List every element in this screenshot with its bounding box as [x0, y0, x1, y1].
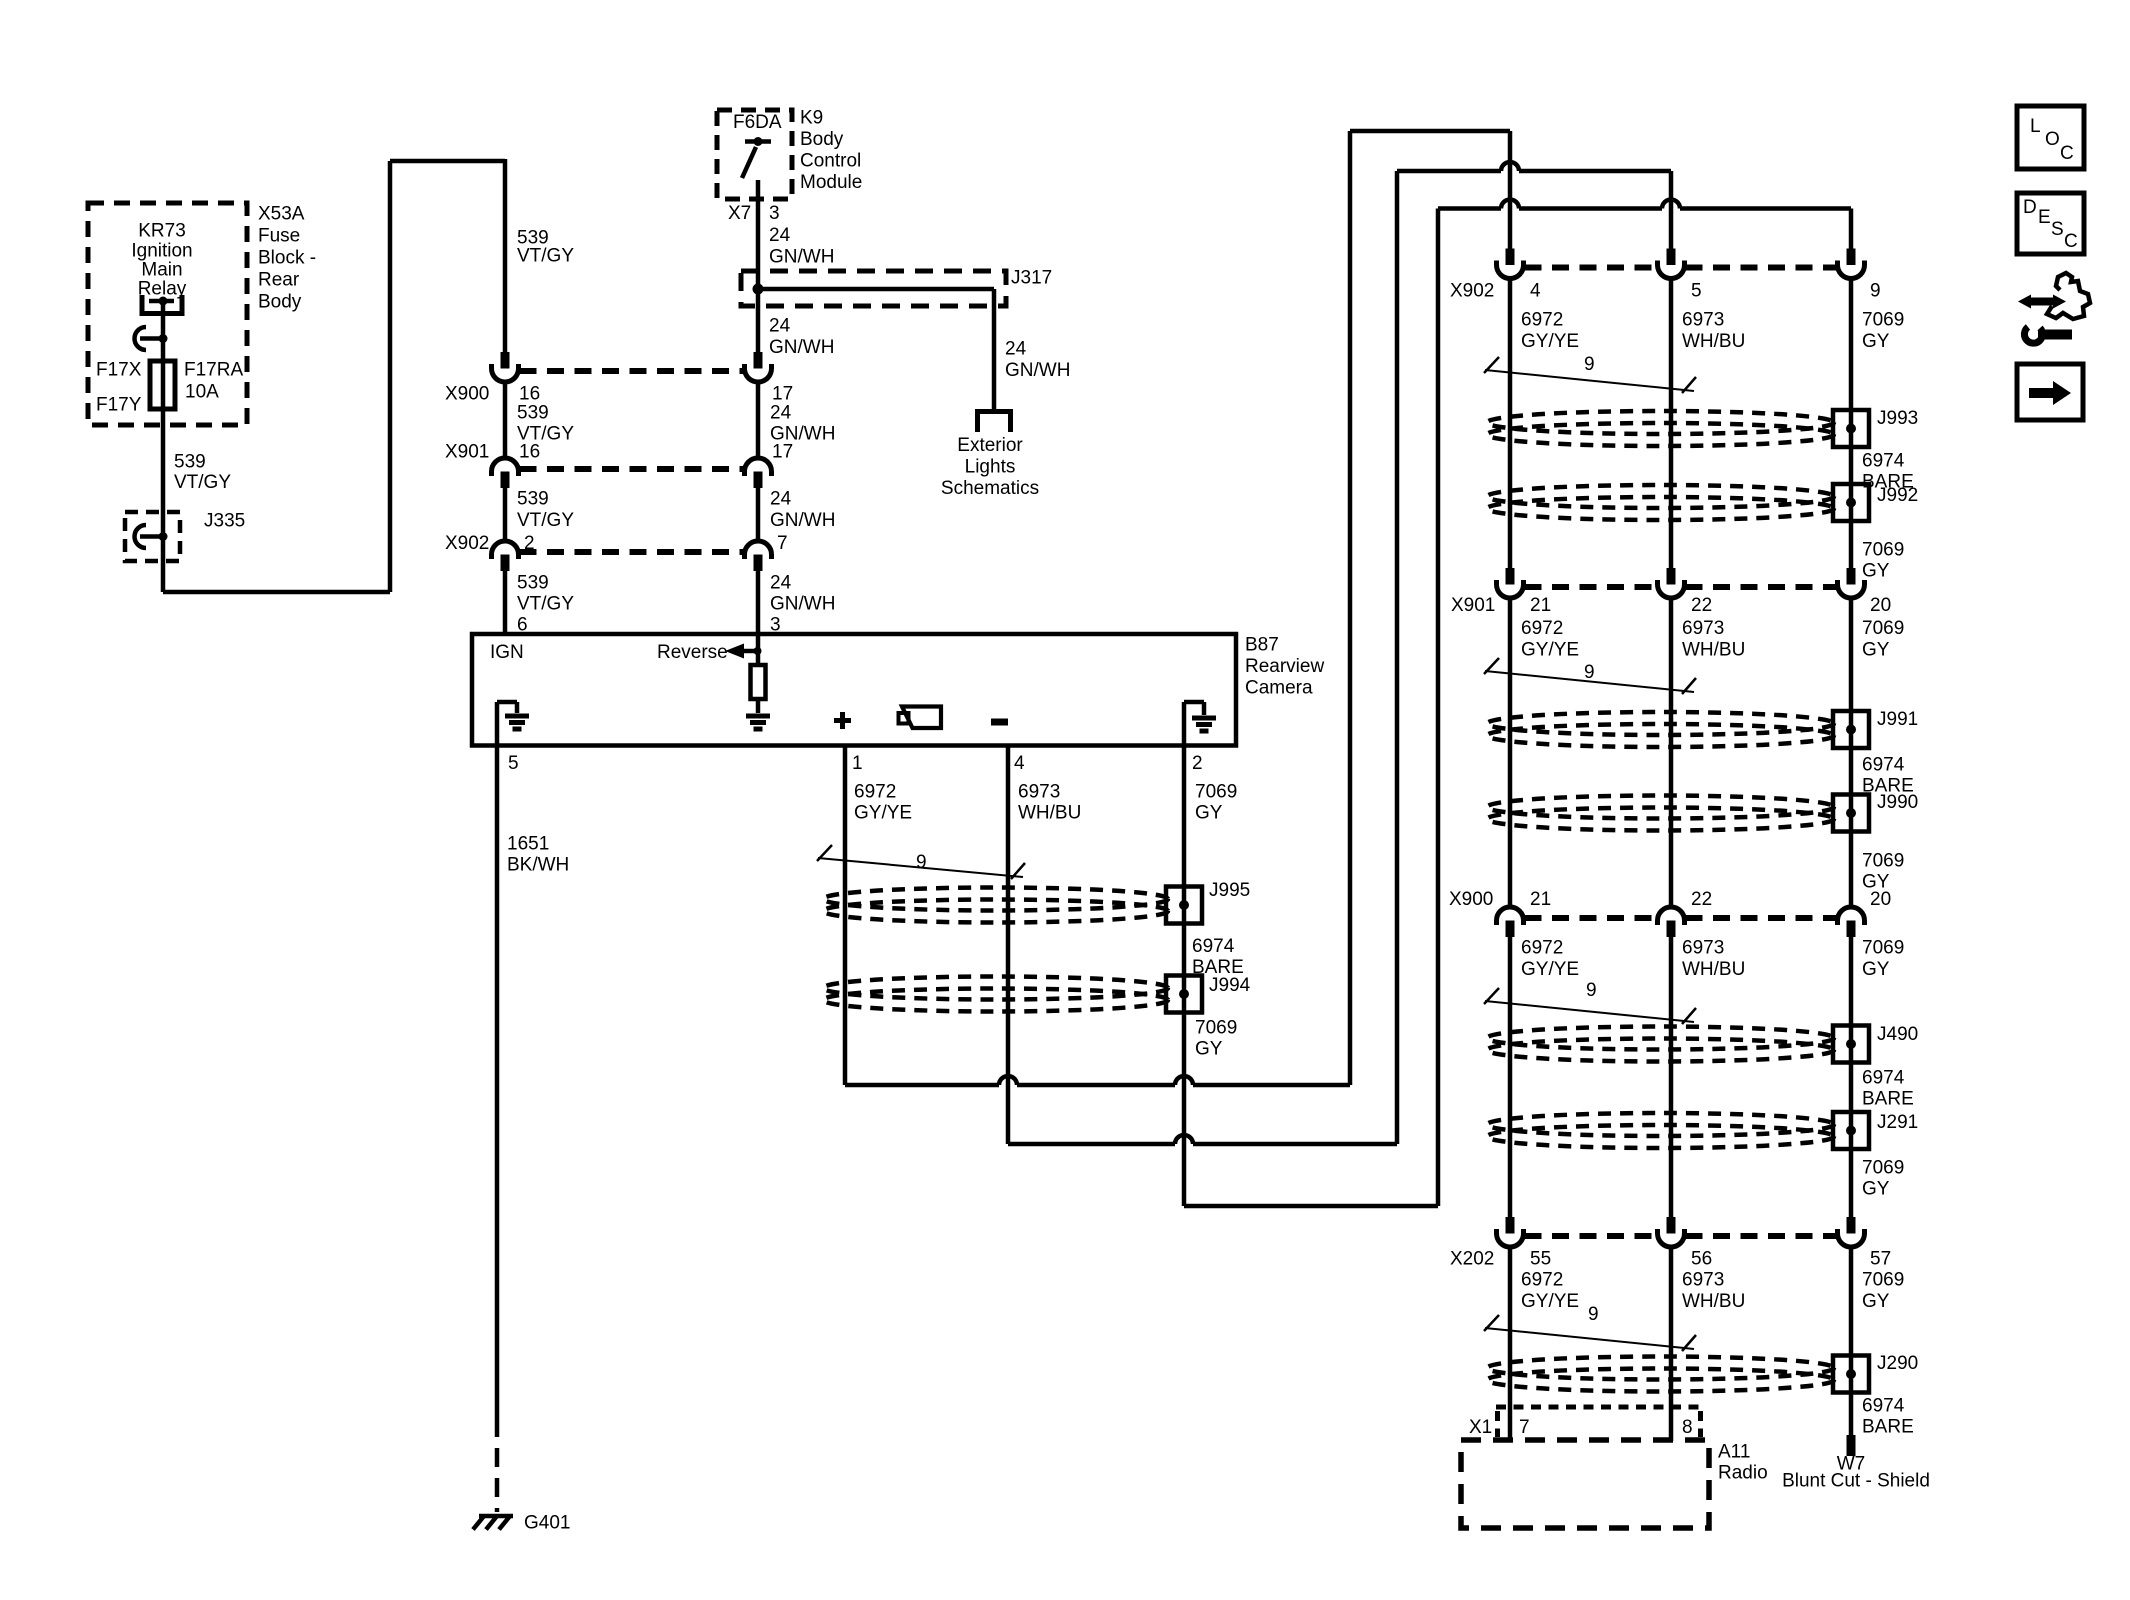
- svg-text:GY: GY: [1862, 1179, 1890, 1200]
- svg-text:J991: J991: [1877, 709, 1918, 730]
- svg-text:9: 9: [1586, 980, 1597, 1001]
- svg-text:L: L: [2030, 116, 2041, 137]
- svg-text:Fuse: Fuse: [258, 226, 300, 247]
- svg-text:Schematics: Schematics: [941, 478, 1039, 499]
- svg-text:J335: J335: [204, 511, 245, 532]
- svg-text:6973: 6973: [1682, 1270, 1724, 1291]
- svg-text:BK/WH: BK/WH: [507, 855, 569, 876]
- svg-text:J290: J290: [1877, 1353, 1918, 1374]
- svg-text:22: 22: [1691, 889, 1712, 910]
- svg-text:GY/YE: GY/YE: [1521, 959, 1579, 980]
- svg-text:GY: GY: [1195, 803, 1223, 824]
- svg-text:24: 24: [1005, 339, 1027, 360]
- svg-text:6974: 6974: [1192, 936, 1235, 957]
- svg-text:3: 3: [770, 615, 781, 636]
- svg-text:17: 17: [772, 442, 793, 463]
- svg-text:2: 2: [524, 533, 535, 554]
- svg-text:E: E: [2038, 207, 2051, 228]
- svg-text:GN/WH: GN/WH: [769, 247, 834, 268]
- svg-text:KR73: KR73: [138, 221, 186, 242]
- svg-text:D: D: [2023, 197, 2037, 218]
- svg-text:2: 2: [1192, 753, 1203, 774]
- svg-text:539: 539: [517, 573, 549, 594]
- svg-text:24: 24: [770, 403, 792, 424]
- svg-text:B87: B87: [1245, 635, 1279, 656]
- svg-text:IGN: IGN: [490, 642, 524, 663]
- svg-text:Control: Control: [800, 151, 861, 172]
- svg-text:9: 9: [1584, 354, 1595, 375]
- svg-text:Rear: Rear: [258, 270, 300, 291]
- svg-text:VT/GY: VT/GY: [517, 246, 574, 267]
- svg-text:C: C: [2060, 143, 2074, 164]
- svg-text:BARE: BARE: [1862, 1417, 1914, 1438]
- svg-text:56: 56: [1691, 1249, 1712, 1270]
- svg-text:S: S: [2051, 219, 2064, 240]
- svg-text:WH/BU: WH/BU: [1682, 1291, 1745, 1312]
- svg-text:VT/GY: VT/GY: [517, 510, 574, 531]
- svg-text:Exterior: Exterior: [957, 435, 1023, 456]
- svg-text:Reverse: Reverse: [657, 642, 728, 663]
- svg-text:7069: 7069: [1195, 782, 1237, 803]
- svg-text:Radio: Radio: [1718, 1463, 1768, 1484]
- svg-text:4: 4: [1530, 281, 1541, 302]
- svg-text:GN/WH: GN/WH: [1005, 360, 1070, 381]
- svg-text:16: 16: [519, 442, 540, 463]
- svg-text:GY: GY: [1862, 959, 1890, 980]
- svg-text:X902: X902: [1450, 281, 1494, 302]
- svg-text:6974: 6974: [1862, 755, 1905, 776]
- svg-text:24: 24: [770, 573, 792, 594]
- svg-text:Camera: Camera: [1245, 678, 1313, 699]
- svg-text:20: 20: [1870, 889, 1891, 910]
- svg-text:6974: 6974: [1862, 1396, 1905, 1417]
- svg-text:GN/WH: GN/WH: [770, 594, 835, 615]
- svg-text:21: 21: [1530, 595, 1551, 616]
- svg-text:539: 539: [174, 452, 206, 473]
- svg-text:J990: J990: [1877, 792, 1918, 813]
- svg-text:Ignition: Ignition: [131, 241, 192, 262]
- svg-text:Lights: Lights: [965, 457, 1016, 478]
- svg-text:7069: 7069: [1862, 618, 1904, 639]
- svg-text:7069: 7069: [1195, 1018, 1237, 1039]
- svg-text:Blunt Cut - Shield: Blunt Cut - Shield: [1782, 1471, 1930, 1492]
- svg-text:9: 9: [1870, 281, 1881, 302]
- svg-text:Module: Module: [800, 172, 862, 193]
- svg-text:J490: J490: [1877, 1024, 1918, 1045]
- svg-text:Body: Body: [258, 292, 302, 313]
- svg-text:20: 20: [1870, 595, 1891, 616]
- svg-text:J992: J992: [1877, 485, 1918, 506]
- svg-text:1651: 1651: [507, 834, 549, 855]
- svg-text:GY/YE: GY/YE: [1521, 640, 1579, 661]
- svg-text:GN/WH: GN/WH: [770, 510, 835, 531]
- svg-text:6973: 6973: [1682, 310, 1724, 331]
- svg-text:539: 539: [517, 403, 549, 424]
- svg-text:6974: 6974: [1862, 1068, 1905, 1089]
- svg-text:5: 5: [1691, 281, 1702, 302]
- svg-text:X901: X901: [1451, 595, 1495, 616]
- svg-text:G401: G401: [524, 1513, 570, 1534]
- svg-text:17: 17: [772, 384, 793, 405]
- svg-text:24: 24: [769, 316, 791, 337]
- svg-text:GY/YE: GY/YE: [1521, 331, 1579, 352]
- svg-text:Rearview: Rearview: [1245, 656, 1324, 677]
- svg-text:9: 9: [1588, 1304, 1599, 1325]
- svg-text:10A: 10A: [185, 382, 219, 403]
- svg-text:Relay: Relay: [138, 279, 187, 300]
- svg-text:9: 9: [1584, 662, 1595, 683]
- svg-text:J993: J993: [1877, 408, 1918, 429]
- svg-text:9: 9: [916, 852, 927, 873]
- svg-text:6: 6: [517, 615, 528, 636]
- svg-text:X202: X202: [1450, 1249, 1494, 1270]
- svg-text:GY: GY: [1862, 561, 1890, 582]
- svg-text:7: 7: [777, 533, 788, 554]
- svg-text:Body: Body: [800, 129, 844, 150]
- svg-text:J291: J291: [1877, 1112, 1918, 1133]
- svg-text:6973: 6973: [1018, 782, 1060, 803]
- svg-text:K9: K9: [800, 108, 823, 129]
- svg-text:A11: A11: [1718, 1442, 1750, 1463]
- svg-text:X53A: X53A: [258, 204, 305, 225]
- svg-text:GY: GY: [1195, 1039, 1223, 1060]
- svg-text:55: 55: [1530, 1249, 1551, 1270]
- svg-text:GY: GY: [1862, 640, 1890, 661]
- svg-text:6972: 6972: [854, 782, 896, 803]
- svg-text:7069: 7069: [1862, 851, 1904, 872]
- svg-text:7069: 7069: [1862, 938, 1904, 959]
- svg-text:6972: 6972: [1521, 310, 1563, 331]
- svg-text:6972: 6972: [1521, 938, 1563, 959]
- svg-text:7069: 7069: [1862, 540, 1904, 561]
- svg-text:X902: X902: [445, 533, 489, 554]
- svg-text:GY/YE: GY/YE: [854, 803, 912, 824]
- svg-text:5: 5: [508, 753, 519, 774]
- svg-text:WH/BU: WH/BU: [1018, 803, 1081, 824]
- svg-text:GY/YE: GY/YE: [1521, 1291, 1579, 1312]
- svg-text:7069: 7069: [1862, 1270, 1904, 1291]
- svg-text:6973: 6973: [1682, 618, 1724, 639]
- svg-text:57: 57: [1870, 1249, 1891, 1270]
- svg-text:GY: GY: [1862, 1291, 1890, 1312]
- svg-text:21: 21: [1530, 889, 1551, 910]
- svg-text:7069: 7069: [1862, 1158, 1904, 1179]
- svg-text:J994: J994: [1209, 975, 1251, 996]
- svg-text:WH/BU: WH/BU: [1682, 331, 1745, 352]
- svg-text:6972: 6972: [1521, 1270, 1563, 1291]
- svg-text:F6DA: F6DA: [733, 112, 782, 133]
- svg-text:3: 3: [769, 203, 780, 224]
- svg-text:X7: X7: [728, 203, 751, 224]
- svg-text:VT/GY: VT/GY: [174, 472, 231, 493]
- svg-text:J317: J317: [1011, 268, 1052, 289]
- svg-text:4: 4: [1014, 753, 1025, 774]
- svg-text:6972: 6972: [1521, 618, 1563, 639]
- svg-text:F17RA: F17RA: [184, 360, 243, 381]
- svg-text:GY: GY: [1862, 331, 1890, 352]
- svg-text:X900: X900: [1449, 889, 1493, 910]
- svg-text:X901: X901: [445, 442, 489, 463]
- svg-text:C: C: [2064, 231, 2078, 252]
- svg-text:X1: X1: [1469, 1417, 1492, 1438]
- svg-text:7: 7: [1519, 1417, 1530, 1438]
- svg-text:16: 16: [519, 384, 540, 405]
- svg-text:O: O: [2045, 129, 2060, 150]
- svg-text:GN/WH: GN/WH: [769, 337, 834, 358]
- svg-text:J995: J995: [1209, 880, 1250, 901]
- svg-text:8: 8: [1682, 1417, 1693, 1438]
- svg-text:7069: 7069: [1862, 310, 1904, 331]
- svg-text:6974: 6974: [1862, 451, 1905, 472]
- svg-text:Main: Main: [141, 260, 182, 281]
- svg-text:Block -: Block -: [258, 248, 316, 269]
- svg-text:BARE: BARE: [1862, 1089, 1914, 1110]
- svg-text:F17X: F17X: [96, 360, 142, 381]
- svg-text:WH/BU: WH/BU: [1682, 959, 1745, 980]
- svg-text:24: 24: [770, 489, 792, 510]
- svg-text:VT/GY: VT/GY: [517, 594, 574, 615]
- svg-text:X900: X900: [445, 384, 489, 405]
- svg-text:WH/BU: WH/BU: [1682, 640, 1745, 661]
- svg-text:1: 1: [852, 753, 863, 774]
- svg-text:22: 22: [1691, 595, 1712, 616]
- svg-text:F17Y: F17Y: [96, 395, 142, 416]
- svg-text:539: 539: [517, 489, 549, 510]
- svg-text:24: 24: [769, 225, 791, 246]
- svg-text:6973: 6973: [1682, 938, 1724, 959]
